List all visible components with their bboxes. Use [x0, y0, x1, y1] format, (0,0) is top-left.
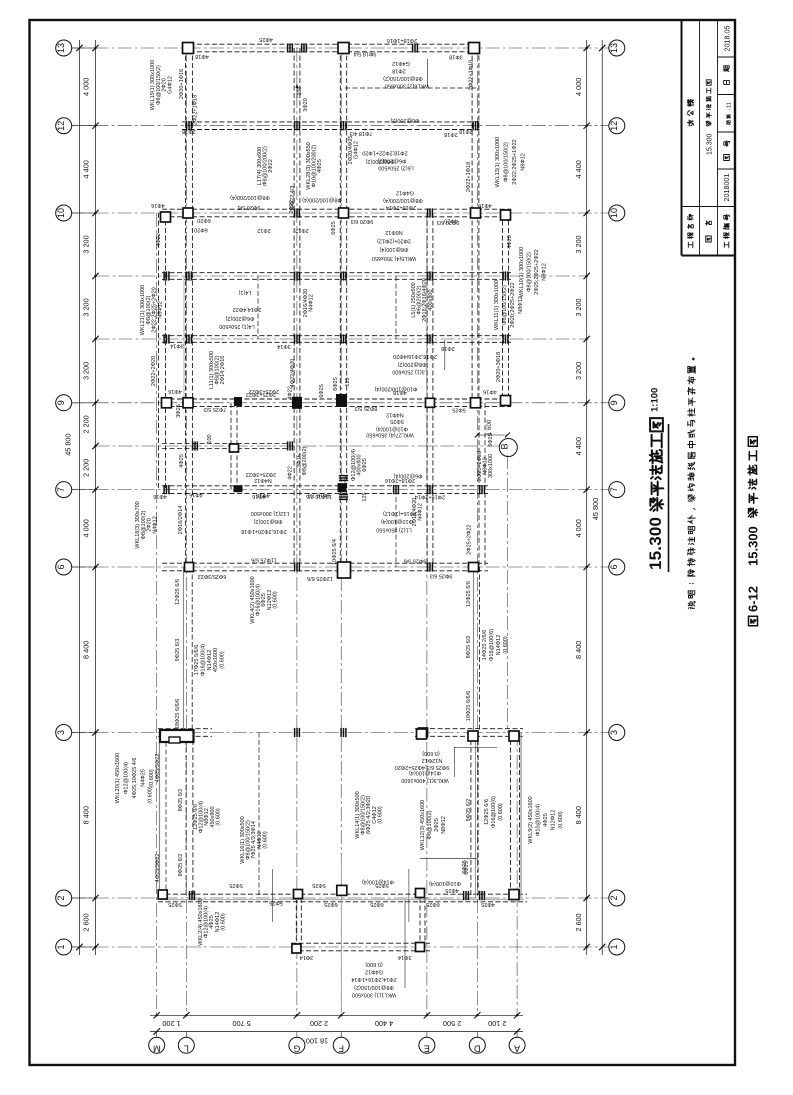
- svg-text:F: F: [338, 1044, 344, 1054]
- support ticks: [186, 271, 188, 280]
- support ticks: [427, 562, 429, 571]
- svg-text:Φ10@100/200(4): Φ10@100/200(4): [374, 385, 417, 391]
- svg-text:4Φ16: 4Φ16: [151, 202, 165, 208]
- axis circle 3 left: [56, 725, 72, 741]
- axis circle 6 left: [56, 559, 72, 575]
- svg-text:Φ8@200(2): Φ8@200(2): [397, 361, 426, 367]
- axis circle 10 left: [56, 205, 72, 221]
- svg-text:2Φ20+3Φ18: 2Φ20+3Φ18: [496, 352, 502, 382]
- svg-text:125: 125: [345, 377, 351, 386]
- svg-text:Φ10@100(4): Φ10@100(4): [381, 518, 413, 524]
- column F/10: [339, 208, 349, 218]
- svg-text:-11: -11: [727, 102, 733, 110]
- axis circle 9 right: [609, 395, 625, 411]
- svg-text:N4Φ12: N4Φ12: [152, 516, 158, 534]
- svg-text:WKL9(2) 450x1600: WKL9(2) 450x1600: [528, 796, 534, 843]
- beam horizontal WKL on axis13: [182, 43, 481, 45]
- svg-text:4Φ25: 4Φ25: [259, 36, 273, 42]
- svg-text:Φ8@200(2): Φ8@200(2): [390, 117, 419, 123]
- svg-text:7: 7: [609, 487, 619, 492]
- vertical axis line F: [340, 48, 342, 1015]
- small dim 100 with arrow: [296, 84, 298, 98]
- svg-text:N14Φ12: N14Φ12: [496, 635, 502, 656]
- svg-text:45 800: 45 800: [64, 433, 73, 455]
- svg-text:4Φ18: 4Φ18: [195, 53, 209, 59]
- title block text: fig number header: [724, 155, 730, 161]
- svg-text:2Φ22+1Φ18: 2Φ22+1Φ18: [469, 60, 475, 90]
- svg-text:2Φ25;2Φ25+2Φ22: 2Φ25;2Φ25+2Φ22: [534, 249, 540, 294]
- svg-text:9Φ25 6/3: 9Φ25 6/3: [430, 572, 453, 578]
- svg-text:8 400: 8 400: [82, 806, 91, 824]
- support ticks: [340, 271, 342, 280]
- title block text: project name header: [688, 242, 693, 248]
- svg-text:Φ16@100(6): Φ16@100(6): [489, 629, 495, 661]
- axis circle 1 left: [56, 939, 72, 955]
- svg-text:4Φ25/3Φ22: 4Φ25/3Φ22: [155, 854, 161, 883]
- svg-text:N8Φ12: N8Φ12: [441, 816, 447, 834]
- svg-text:N8Φ12: N8Φ12: [542, 263, 548, 281]
- column G/9: [292, 397, 302, 409]
- column D/6: [469, 563, 479, 572]
- vertical axis line E: [426, 213, 428, 1015]
- svg-text:8Φ25 6/2: 8Φ25 6/2: [178, 789, 184, 812]
- svg-text:N8Φ12: N8Φ12: [518, 296, 524, 314]
- svg-text:6: 6: [609, 564, 619, 569]
- svg-text:2Φ20+1Φ16: 2Φ20+1Φ16: [179, 69, 185, 99]
- svg-text:12: 12: [56, 121, 66, 131]
- column F/9: [336, 394, 347, 407]
- svg-text:13Φ16 7/6: 13Φ16 7/6: [306, 493, 332, 499]
- svg-text:2Φ12: 2Φ12: [295, 227, 309, 233]
- axis line 12: [72, 125, 609, 127]
- svg-text:(0.600): (0.600): [503, 636, 509, 654]
- svg-text:2Φ18;2Φ16/4Φ20: 2Φ18;2Φ16/4Φ20: [393, 353, 437, 359]
- support ticks: [427, 334, 429, 343]
- column E/3: [417, 729, 427, 739]
- column F/13: [338, 43, 349, 54]
- svg-text:N4Φ12: N4Φ12: [418, 503, 424, 521]
- svg-text:5Φ25: 5Φ25: [168, 901, 182, 907]
- axis line 7: [72, 489, 609, 491]
- beam horizontal axis12: [182, 121, 481, 123]
- axis D hall edge: solid + dash: [473, 567, 475, 733]
- svg-text:4 000: 4 000: [82, 519, 91, 537]
- svg-text:3 200: 3 200: [574, 235, 583, 253]
- svg-text:10: 10: [609, 208, 619, 218]
- beam vertical axis D lower detail: [478, 403, 480, 567]
- svg-text:3Φ18: 3Φ18: [449, 54, 463, 60]
- svg-text:L1(2) 350x550: L1(2) 350x550: [376, 527, 411, 533]
- secondary beam L4: [257, 276, 259, 339]
- beam annotation labels rotated 180: [151, 36, 497, 998]
- support ticks: [340, 334, 342, 343]
- svg-text:Φ14@100(4): Φ14@100(4): [362, 879, 394, 885]
- svg-text:1 200: 1 200: [162, 1019, 180, 1028]
- small dim 125 leader: [344, 476, 346, 490]
- beam horizontal axis10: [162, 208, 511, 210]
- svg-text:G4Φ12: G4Φ12: [365, 969, 383, 975]
- axis circle 1 right: [609, 939, 625, 955]
- left total dimension line: [79, 40, 81, 955]
- column D/3: [468, 731, 478, 741]
- axis circle 3 right: [609, 725, 625, 741]
- axis2 slab edge gray line: [160, 899, 524, 901]
- svg-text:Φ8@100/150(2): Φ8@100/150(2): [504, 142, 510, 182]
- beam horizontal axis2: [158, 893, 527, 895]
- svg-text:G4Φ12: G4Φ12: [354, 141, 360, 159]
- svg-text:3: 3: [609, 730, 619, 735]
- beam horizontal stair landing: [162, 442, 290, 444]
- svg-text:17Φ25 5/6/6: 17Φ25 5/6/6: [194, 645, 200, 675]
- svg-text:2Φ18;2Φ22+1Φ20: 2Φ18;2Φ22+1Φ20: [362, 150, 407, 156]
- svg-text:2 600: 2 600: [574, 913, 583, 931]
- axis line 10: [72, 212, 609, 214]
- beam vertical axis E bay: [419, 898, 421, 947]
- svg-text:1: 1: [56, 944, 66, 949]
- beam vertical axis L upper: [185, 48, 187, 567]
- svg-text:Φ8@100/150(2): Φ8@100/150(2): [527, 252, 533, 292]
- svg-text:4Φ16: 4Φ16: [483, 388, 497, 394]
- column B/10: [501, 210, 511, 220]
- svg-text:2Φ18+1Φ16: 2Φ18+1Φ16: [387, 37, 417, 43]
- svg-text:2Φ16+2Φ14: 2Φ16+2Φ14: [415, 493, 445, 499]
- svg-text:5 700: 5 700: [232, 1019, 250, 1028]
- svg-text:1:100: 1:100: [650, 388, 661, 412]
- svg-text:2Φ22+1Φ18: 2Φ22+1Φ18: [193, 95, 199, 125]
- svg-text:125: 125: [362, 492, 368, 501]
- svg-text:(0.600): (0.600): [215, 808, 221, 826]
- axis line 6: [72, 566, 609, 568]
- title block text: date header: [724, 81, 730, 85]
- svg-text:L6(2) 250x500: L6(2) 250x500: [378, 164, 413, 170]
- svg-text:WKL6(2) 300x650: WKL6(2) 300x650: [385, 83, 429, 89]
- support ticks: [192, 441, 194, 450]
- support ticks: [301, 43, 303, 52]
- svg-text:4Φ16: 4Φ16: [189, 492, 203, 498]
- beam horizontal axis t1: [162, 272, 511, 274]
- svg-text:12Φ25 6/6: 12Φ25 6/6: [484, 799, 490, 825]
- support ticks: [472, 121, 474, 130]
- column E/9: [426, 398, 435, 407]
- bottom axis circle G: [289, 1037, 305, 1053]
- bottom axis circle E: [419, 1037, 435, 1053]
- beam vertical axis D lower: [470, 733, 472, 899]
- axis circle 7 right: [609, 482, 625, 498]
- svg-text:10Φ25 6/4: 10Φ25 6/4: [332, 539, 338, 565]
- secondary beam L5: [395, 276, 397, 339]
- bottom axis circle M: [149, 1037, 165, 1053]
- svg-text:13: 13: [609, 43, 619, 53]
- svg-text:300x1000: 300x1000: [488, 454, 494, 478]
- composite shaft column M-L/3: [160, 730, 194, 742]
- beam vertical axis E upper: [426, 213, 428, 567]
- svg-text:4Φ25: 4Φ25: [317, 159, 323, 173]
- svg-text:1: 1: [609, 944, 619, 949]
- axis tick line t3: [96, 445, 500, 447]
- column F/7: [338, 483, 347, 492]
- svg-text:8 400: 8 400: [574, 806, 583, 824]
- svg-text:Φ8@100(2): Φ8@100(2): [253, 518, 282, 524]
- svg-text:D: D: [474, 1044, 481, 1054]
- support ticks: [163, 485, 165, 494]
- svg-text:3Φ25: 3Φ25: [176, 404, 182, 418]
- axis tick line t1: [96, 275, 587, 277]
- svg-text:G4Φ12: G4Φ12: [392, 60, 410, 66]
- svg-text:WKL13(1) 300x1000: WKL13(1) 300x1000: [495, 137, 501, 187]
- svg-text:4 400: 4 400: [82, 160, 91, 178]
- column M/10: [161, 212, 171, 222]
- beam vertical axis G upper: [293, 48, 295, 567]
- column L/10: [183, 208, 193, 218]
- svg-text:2Φ16/2Φ14: 2Φ16/2Φ14: [178, 506, 184, 535]
- svg-text:2 600: 2 600: [82, 913, 91, 931]
- caption figure 6-12: [749, 616, 758, 625]
- svg-text:3Φ14: 3Φ14: [300, 954, 314, 960]
- svg-text:Φ8@100/150(2): Φ8@100/150(2): [383, 75, 423, 81]
- svg-text:5Φ25: 5Φ25: [312, 882, 326, 888]
- axis circle B: [499, 439, 517, 457]
- svg-text:N12Φ12: N12Φ12: [422, 757, 443, 763]
- svg-text:4 000: 4 000: [574, 78, 583, 96]
- svg-text:2Φ22+2Φ20: 2Φ22+2Φ20: [151, 356, 157, 386]
- svg-text:WKL1(1) 300x500: WKL1(1) 300x500: [352, 992, 396, 998]
- axis circle 9 left: [56, 395, 72, 411]
- beam horizontal axis3 left segment: [158, 728, 212, 730]
- support ticks: [294, 334, 296, 343]
- beam horizontal axis6: [162, 562, 488, 564]
- svg-text:6Φ25: 6Φ25: [331, 221, 337, 235]
- svg-text:6Φ25: 6Φ25: [324, 901, 338, 907]
- svg-text:3: 3: [56, 730, 66, 735]
- support ticks: [502, 271, 504, 280]
- svg-text:2Φ22: 2Φ22: [268, 159, 274, 173]
- svg-text:WKL5(4) 350x650: WKL5(4) 350x650: [372, 255, 416, 261]
- beam horizontal axis9: [162, 398, 511, 400]
- support ticks: [340, 728, 342, 737]
- svg-text:7Φ18 4/3: 7Φ18 4/3: [350, 130, 373, 136]
- stair mid beams lower: [258, 733, 260, 899]
- axis circle 12 left: [56, 118, 72, 134]
- svg-text:5Φ25: 5Φ25: [452, 407, 466, 413]
- svg-text:2Φ18+2Φ16: 2Φ18+2Φ16: [385, 477, 415, 483]
- svg-text:2018.05: 2018.05: [723, 26, 732, 52]
- svg-text:6Φ25: 6Φ25: [319, 384, 325, 398]
- svg-text:2Φ16;2Φ20+1Φ18: 2Φ16;2Φ20+1Φ18: [241, 528, 286, 534]
- beam vertical axis A strip: [510, 733, 512, 899]
- bottom dimension chain line: [150, 1014, 523, 1016]
- svg-text:2Φ22+1Φ18: 2Φ22+1Φ18: [466, 162, 472, 192]
- svg-text:Φ8@100/150(2): Φ8@100/150(2): [502, 285, 508, 325]
- axis line 9: [72, 402, 609, 404]
- column L/6: [185, 563, 194, 572]
- svg-text:N4Φ25: N4Φ25: [141, 769, 147, 787]
- svg-text:4Φ25: 4Φ25: [445, 887, 459, 893]
- axis circle 2 left: [56, 890, 72, 906]
- bottom dimension ticks and labels: [154, 1012, 160, 1018]
- svg-text:12: 12: [609, 121, 619, 131]
- svg-text:G: G: [293, 1044, 300, 1054]
- svg-text:2Φ25+2Φ22: 2Φ25+2Φ22: [467, 525, 473, 555]
- axis circle 2 right: [609, 890, 625, 906]
- partition wall line: [183, 276, 185, 403]
- svg-text:L4(1) 250x500: L4(1) 250x500: [219, 323, 254, 329]
- svg-text:Φ8@100/150(2): Φ8@100/150(2): [354, 984, 394, 990]
- svg-text:400x800: 400x800: [428, 289, 434, 310]
- svg-text:2Φ25+3Φ22: 2Φ25+3Φ22: [246, 471, 276, 477]
- svg-text:2Φ22;2Φ25+1Φ22: 2Φ22;2Φ25+1Φ22: [512, 139, 518, 184]
- axis line 3: [72, 732, 609, 734]
- svg-text:Φ8@100(4): Φ8@100(4): [379, 246, 408, 252]
- svg-text:12Φ25 6/6: 12Φ25 6/6: [466, 581, 472, 607]
- svg-text:B: B: [500, 443, 510, 449]
- column E/2: [416, 889, 425, 898]
- axis circle 6 right: [609, 559, 625, 575]
- svg-text:Φ6@200(2): Φ6@200(2): [377, 158, 406, 164]
- svg-text:4Φ22/4Φ20: 4Φ22/4Φ20: [290, 359, 296, 388]
- column L/13: [183, 43, 194, 54]
- svg-text:2Φ16+2Φ14: 2Φ16+2Φ14: [386, 204, 416, 210]
- column F/2: [337, 885, 347, 895]
- svg-text:9Φ20 6/3: 9Φ20 6/3: [351, 218, 374, 224]
- svg-text:2 200: 2 200: [82, 415, 91, 433]
- svg-text:WKL20(1) 450x1600: WKL20(1) 450x1600: [115, 753, 121, 803]
- svg-text:4Φ16: 4Φ16: [478, 202, 492, 208]
- svg-text:2Φ18: 2Φ18: [459, 128, 473, 134]
- bottom axis circle L: [178, 1037, 194, 1053]
- column A/3: [509, 731, 519, 741]
- svg-text:2Φ14;2Φ16+1Φ14: 2Φ14;2Φ16+1Φ14: [351, 976, 396, 982]
- svg-text:2Φ18: 2Φ18: [441, 345, 455, 351]
- beam vertical axis M edge: [158, 213, 160, 490]
- svg-text:9Φ25 6/3: 9Φ25 6/3: [175, 639, 181, 662]
- svg-text:(0.600): (0.600): [272, 591, 278, 609]
- svg-text:8Φ25 6/2: 8Φ25 6/2: [178, 854, 184, 877]
- support ticks: [340, 121, 342, 130]
- svg-text:2Φ22: 2Φ22: [289, 200, 295, 214]
- support ticks: [189, 891, 191, 900]
- right total dimension line: [601, 40, 603, 955]
- svg-text:6Φ25: 6Φ25: [362, 458, 368, 472]
- svg-text:3 200: 3 200: [574, 362, 583, 380]
- svg-text:45 800: 45 800: [591, 498, 600, 520]
- svg-text:6Φ20: 6Φ20: [197, 217, 211, 223]
- outer wall gray line: [520, 733, 522, 899]
- svg-text:4Φ25: 4Φ25: [481, 901, 495, 907]
- column E/3: [419, 728, 428, 737]
- svg-text:5Φ25: 5Φ25: [269, 900, 283, 906]
- secondary beam room 7-6: [395, 490, 397, 567]
- svg-text:3Φ14: 3Φ14: [398, 954, 412, 960]
- vertical axis line A: [516, 732, 518, 1015]
- right dimension chain line: [586, 40, 588, 955]
- column M/9: [162, 398, 172, 408]
- left dimension ticks and labels: [92, 45, 98, 51]
- dim 1600 between D and B: [477, 434, 507, 436]
- svg-text:2018001: 2018001: [722, 174, 731, 202]
- beam vertical axis F upper: [339, 48, 341, 567]
- support ticks: [294, 728, 296, 737]
- title block text: sheet id: [726, 121, 730, 125]
- column G/1: [292, 944, 301, 953]
- svg-text:4Φ16: 4Φ16: [153, 493, 167, 499]
- svg-text:9: 9: [609, 400, 619, 405]
- svg-text:8Φ25 6/2: 8Φ25 6/2: [466, 636, 472, 659]
- support ticks: [427, 271, 429, 280]
- svg-text:Φ12@100(4): Φ12@100(4): [124, 762, 130, 794]
- svg-text:(0.600): (0.600): [220, 913, 226, 931]
- support ticks: [427, 485, 429, 494]
- svg-text:Φ10@100(4): Φ10@100(4): [429, 880, 461, 886]
- label leader lines bay: [272, 869, 274, 922]
- svg-text:L12(1) 300x500: L12(1) 300x500: [251, 510, 290, 516]
- column D/10: [471, 208, 481, 218]
- vertical axis line G: [296, 48, 298, 1015]
- secondary beam top block: [345, 87, 476, 89]
- beam vertical axis G bay: [295, 898, 297, 947]
- svg-text:N12Φ12: N12Φ12: [551, 810, 557, 831]
- big title underline: [668, 424, 670, 572]
- svg-text:G4Φ12: G4Φ12: [396, 190, 414, 196]
- column stair G9: [234, 397, 242, 406]
- axis line 2: [72, 897, 609, 899]
- support ticks: [294, 208, 296, 217]
- left dimension chain line: [95, 40, 97, 955]
- svg-text:2: 2: [609, 895, 619, 900]
- svg-text:2: 2: [56, 895, 66, 900]
- svg-text:2Φ20;2Φ25+2Φ22: 2Φ20;2Φ25+2Φ22: [510, 282, 516, 327]
- support ticks: [186, 121, 188, 130]
- title block text: office building: [688, 120, 694, 126]
- support ticks: [393, 485, 395, 494]
- bottom axis circle A: [509, 1037, 525, 1053]
- title block table: [682, 20, 736, 256]
- svg-text:10: 10: [56, 208, 66, 218]
- axis L hall edge: solid + dash: [183, 567, 185, 733]
- column L/9: [183, 398, 193, 408]
- support ticks: [479, 891, 481, 900]
- support ticks: [186, 334, 188, 343]
- svg-text:6Φ25: 6Φ25: [464, 861, 470, 875]
- svg-text:3 200: 3 200: [82, 298, 91, 316]
- support ticks: [287, 43, 289, 52]
- beam horizontal axis3 right segment: [415, 728, 523, 730]
- support ticks: [287, 441, 289, 450]
- svg-text:4Φ25/3Φ22: 4Φ25/3Φ22: [155, 754, 161, 783]
- svg-text:6Φ25: 6Φ25: [370, 901, 384, 907]
- svg-text:Φ8@100(2): Φ8@100(2): [427, 810, 433, 839]
- svg-text:2 200: 2 200: [82, 459, 91, 477]
- svg-text:3 200: 3 200: [82, 362, 91, 380]
- svg-text:2Φ16+(2Φ12): 2Φ16+(2Φ12): [383, 510, 417, 516]
- svg-text:4Φ20: 4Φ20: [507, 235, 513, 249]
- svg-text:3 200: 3 200: [574, 298, 583, 316]
- beam vertical axis L strip: [185, 733, 187, 899]
- bottom axis circle D: [469, 1037, 485, 1053]
- chain intersection dots: [94, 47, 96, 49]
- svg-text:1 600: 1 600: [486, 419, 493, 435]
- column G/2: [294, 890, 303, 899]
- svg-text:450x1600: 450x1600: [213, 648, 219, 672]
- svg-text:(0.600): (0.600): [220, 651, 226, 669]
- svg-text:4Φ22: 4Φ22: [288, 466, 294, 480]
- svg-text:7: 7: [56, 487, 66, 492]
- shaft wall lines: [159, 742, 161, 893]
- support ticks: [427, 208, 429, 217]
- svg-text:8 400: 8 400: [82, 641, 91, 659]
- svg-text:15.300: 15.300: [646, 517, 665, 570]
- svg-text:6-12: 6-12: [745, 586, 760, 612]
- svg-text:(0.600): (0.600): [148, 786, 154, 804]
